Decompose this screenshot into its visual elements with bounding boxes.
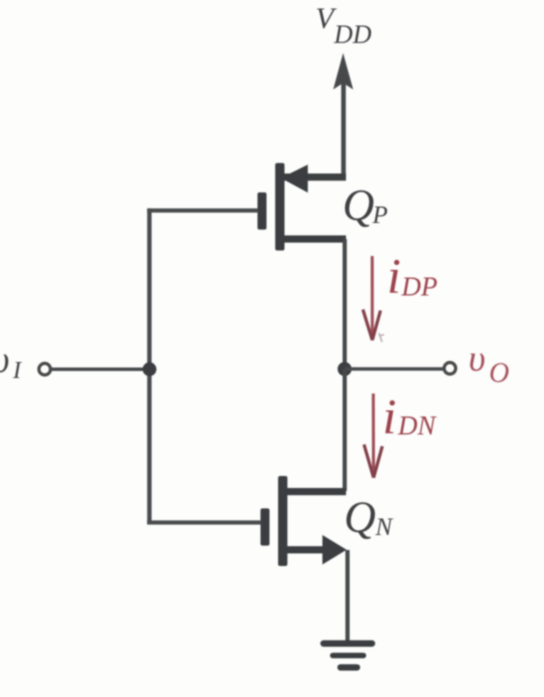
left branch vertical wire: [147, 208, 151, 524]
svg-text:i: i: [387, 248, 401, 304]
junction output node: [338, 362, 352, 376]
svg-text:I: I: [12, 358, 22, 384]
output terminal circle: [444, 363, 456, 375]
svg-text:DN: DN: [397, 411, 437, 441]
wire QP drain down to output node: [343, 239, 347, 369]
label vI: [0, 339, 22, 384]
svg-text:O: O: [489, 358, 509, 389]
svg-text:υ: υ: [0, 339, 9, 381]
label VDD: [316, 2, 372, 49]
wire output: [345, 367, 444, 371]
svg-text:Q: Q: [344, 493, 376, 542]
transistor QN: [261, 476, 347, 566]
svg-text:P: P: [372, 202, 388, 229]
label QN: [344, 493, 394, 542]
svg-text:i: i: [383, 388, 397, 444]
transistor QP: [258, 163, 347, 251]
svg-text:Q: Q: [343, 180, 375, 229]
wire VDD to QP source: [282, 174, 346, 181]
wire input: [52, 368, 148, 372]
ground: [324, 644, 373, 668]
wire QP gate: [147, 208, 258, 212]
label iDP: [387, 248, 438, 304]
label QP: [343, 180, 388, 229]
label iDN: [383, 388, 438, 444]
svg-text:N: N: [375, 514, 394, 541]
input terminal circle: [39, 363, 51, 375]
current arrow iDP: [363, 256, 381, 340]
svg-text:υ: υ: [469, 339, 486, 380]
junction input node: [143, 362, 157, 376]
power VDD arrow: [333, 53, 353, 177]
label vO: [469, 339, 510, 389]
svg-text:DD: DD: [333, 20, 372, 49]
wire output node down to QN drain: [343, 369, 347, 491]
print artifact near iDP tip: [379, 333, 384, 342]
wire QN source down to ground: [345, 550, 349, 641]
wire QN gate: [147, 520, 261, 524]
svg-text:DP: DP: [401, 272, 438, 302]
current arrow iDN: [364, 394, 382, 478]
